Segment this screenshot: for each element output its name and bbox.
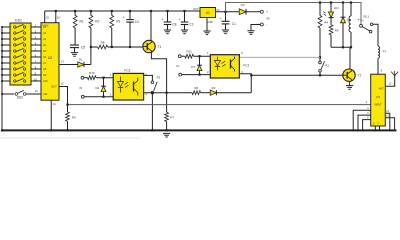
U3 right pins [385, 113, 390, 130]
wire collector node T2 [331, 47, 350, 69]
switch DS1-9 [14, 74, 16, 76]
relay coil RL1 [350, 3, 352, 17]
switch DS1-5 [14, 50, 16, 52]
terminal into FC1 pin2 [179, 73, 182, 76]
capacitor C4 [129, 11, 131, 20]
gray wire FC1 pin5 to R4 node [239, 56, 320, 58]
svg-text:R2: R2 [95, 19, 99, 23]
wire DS1 row 1 stubs [2, 26, 10, 28]
svg-text:+: + [179, 18, 181, 22]
svg-text:A5: A5 [43, 49, 47, 53]
svg-text:R8: R8 [101, 41, 105, 45]
capacitor C2 [184, 11, 186, 22]
svg-text:A7: A7 [43, 61, 47, 65]
ground [71, 53, 78, 57]
wire DS1 row 9 stubs [2, 74, 10, 76]
switch DS1-6 [14, 56, 16, 58]
resistor R5 [330, 18, 332, 25]
svg-text:L1: L1 [383, 49, 387, 53]
relay contact common [360, 24, 363, 27]
svg-text:R4: R4 [324, 20, 328, 24]
wire DS1 row 8 stubs [2, 68, 10, 70]
svg-text:11: 11 [35, 89, 38, 93]
capacitor C5 [70, 44, 79, 46]
svg-text:R11: R11 [187, 50, 193, 54]
svg-text:C2: C2 [189, 23, 193, 27]
svg-text:9V: 9V [267, 16, 271, 20]
svg-text:C1: C1 [232, 22, 236, 26]
svg-text:A6: A6 [43, 55, 47, 59]
svg-text:P2: P2 [157, 76, 161, 80]
switch DS1-10 [14, 80, 16, 82]
svg-text:FC1: FC1 [243, 63, 249, 67]
pushbutton P2 [144, 75, 153, 81]
svg-text:D1: D1 [79, 58, 83, 62]
svg-text:C5: C5 [81, 46, 85, 50]
wire left ground bus [1, 27, 3, 130]
switch DS1-1 [14, 26, 16, 28]
svg-text:A11: A11 [43, 92, 48, 96]
pushbutton P1 [319, 61, 322, 64]
wire DS1 row 4 stubs [2, 44, 10, 46]
svg-text:16: 16 [57, 16, 61, 20]
svg-text:D4: D4 [212, 86, 216, 90]
relay blade [362, 27, 369, 31]
U3 left pins to ground [353, 110, 371, 130]
svg-text:A10: A10 [43, 79, 48, 83]
svg-text:D7: D7 [191, 65, 195, 69]
LED LD1 [330, 3, 332, 13]
svg-text:R3: R3 [116, 19, 120, 23]
capacitor C1 [225, 12, 227, 22]
svg-text:17: 17 [61, 60, 65, 64]
svg-text:R5: R5 [335, 28, 339, 32]
long wire to U3 INPUT [68, 104, 371, 106]
resistor R4 [319, 3, 321, 16]
resistor R7 [166, 93, 168, 113]
switch DS2 [2, 93, 14, 95]
switch DS1-7 [14, 62, 16, 64]
svg-text:R10: R10 [89, 71, 95, 75]
svg-text:A4: A4 [43, 43, 47, 47]
wire U2 OUT [59, 87, 68, 105]
RF module U3 [371, 74, 386, 126]
wire DS1 row 6 stubs [2, 56, 10, 58]
page artifact line [0, 137, 140, 139]
diode D6 [342, 3, 344, 18]
ground rail [2, 129, 397, 131]
U2 pin 15 stub [44, 11, 46, 23]
U2 pin 16 stub [55, 11, 57, 23]
antenna [385, 76, 394, 86]
optocoupler FC2 [113, 73, 143, 100]
svg-text:IN: IN [177, 64, 180, 68]
U2 pin 14 stub to ground rail [50, 100, 52, 130]
svg-text:OUT: OUT [193, 7, 199, 11]
svg-text:P1: P1 [325, 64, 329, 68]
svg-text:A8: A8 [43, 67, 47, 71]
svg-text:RL1: RL1 [364, 14, 370, 18]
ground below rail [163, 133, 170, 137]
svg-text:14: 14 [53, 102, 57, 106]
svg-text:OUT: OUT [51, 85, 57, 89]
svg-text:C4: C4 [135, 20, 139, 24]
diode D1 [59, 64, 78, 66]
switch DS1-4 [14, 44, 16, 46]
switch DS1-3 [14, 38, 16, 40]
svg-text:R7: R7 [170, 116, 174, 120]
svg-text:A3: A3 [43, 37, 47, 41]
svg-text:R9: R9 [72, 115, 76, 119]
battery terminal - [260, 23, 263, 26]
diode D7 across FC1 input [199, 56, 201, 74]
svg-text:15: 15 [46, 16, 50, 20]
transistor T2 [251, 74, 343, 76]
resistor R2 [90, 11, 92, 15]
svg-text:12: 12 [60, 82, 64, 86]
battery terminal + [260, 10, 263, 13]
resistor R6 [167, 92, 192, 94]
svg-text:+: + [162, 18, 164, 22]
U3 bottom pins [374, 126, 376, 130]
capacitor C8 [167, 11, 169, 22]
DIP switch DS1 [10, 23, 31, 85]
wire DS1 row 7 stubs [2, 62, 10, 64]
switch DS1-2 [14, 32, 16, 34]
svg-text:10: 10 [34, 77, 38, 81]
svg-text:U2: U2 [48, 56, 52, 60]
optocoupler FC1 [210, 55, 239, 78]
svg-text:A2: A2 [43, 31, 47, 35]
resistor R9 [67, 105, 69, 112]
wire DS1 row 10 stubs [2, 80, 10, 82]
svg-text:+: + [266, 10, 268, 14]
wire DS1 row 5 stubs [2, 50, 10, 52]
svg-text:INPUT: INPUT [374, 104, 382, 107]
svg-text:IN: IN [217, 8, 220, 12]
svg-text:LD1: LD1 [334, 6, 340, 10]
svg-text:FC2: FC2 [124, 69, 130, 73]
terminal into FC2 pin2 [81, 95, 84, 98]
diode D4 [210, 90, 216, 95]
svg-text:A1: A1 [43, 25, 47, 29]
resistor R1 [74, 11, 76, 15]
terminal + R10 into FC2 pin1 [81, 76, 84, 79]
encoder IC U2 [41, 23, 59, 101]
svg-text:U1: U1 [206, 11, 210, 15]
diode D3 [239, 9, 246, 15]
svg-text:D2: D2 [96, 86, 100, 90]
svg-text:T2: T2 [358, 73, 362, 77]
wire FC2 pin4 [144, 92, 167, 94]
svg-text:R6: R6 [194, 86, 198, 90]
svg-text:IN: IN [79, 86, 82, 90]
svg-text:C8: C8 [172, 23, 176, 27]
wire DS1 row 2 stubs [2, 32, 10, 34]
relay fixed contact [370, 23, 373, 26]
coil L1 [378, 46, 380, 58]
svg-text:T1: T1 [158, 45, 162, 49]
svg-text:DS1: DS1 [15, 19, 22, 23]
svg-text:+: + [123, 15, 125, 19]
diode D2 across FC2 input [103, 78, 105, 97]
svg-text:DS2: DS2 [17, 96, 23, 100]
svg-text:R1: R1 [80, 19, 84, 23]
switch DS1-8 [14, 68, 16, 70]
wire DS1 row 3 stubs [2, 38, 10, 40]
svg-text:A9: A9 [43, 73, 47, 77]
svg-text:+: + [220, 17, 222, 21]
svg-text:ANT: ANT [379, 87, 385, 91]
svg-text:U3: U3 [376, 95, 380, 99]
wire top supply rail [226, 3, 362, 25]
svg-text:-: - [266, 23, 267, 27]
resistor R8 [91, 46, 98, 48]
wire Vcc rail upper [45, 10, 200, 12]
terminal + R11 into FC1 pin1 [178, 55, 181, 58]
wire FC1 pin4 down to T2 base line [239, 74, 251, 93]
transistor T1 [150, 11, 152, 41]
svg-text:D3: D3 [241, 3, 245, 7]
resistor R3 [111, 11, 113, 15]
